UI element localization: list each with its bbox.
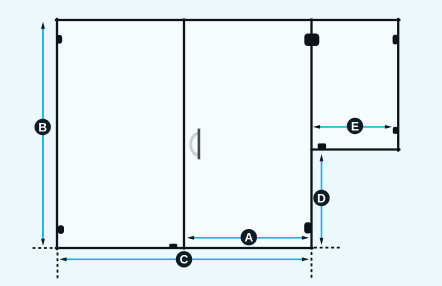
wire right edge xyxy=(397,19,399,151)
wire dashed ext bottom-left xyxy=(33,247,56,249)
arrowhead C right xyxy=(302,257,309,261)
wire dashed ext below-mid xyxy=(311,252,313,280)
node label C xyxy=(176,251,192,267)
hinge left top xyxy=(57,35,63,44)
arrowhead D bottom xyxy=(320,238,324,245)
svg-text:D: D xyxy=(317,191,326,205)
wire door divider xyxy=(183,20,185,249)
clamp right mid xyxy=(393,127,399,134)
svg-text:C: C xyxy=(180,253,189,267)
wire dashed ext bottom-right xyxy=(314,247,342,249)
wire top edge xyxy=(56,19,399,21)
wire return bottom edge xyxy=(312,148,400,150)
dim C shaft xyxy=(65,258,304,260)
svg-text:A: A xyxy=(244,231,253,245)
wire main bottom edge xyxy=(56,247,313,249)
svg-text:B: B xyxy=(38,120,47,134)
node label B xyxy=(35,119,51,135)
node label D xyxy=(313,190,329,206)
clamp main bottom xyxy=(169,244,177,249)
wire dashed ext below-left xyxy=(57,253,59,280)
arrowhead A left xyxy=(187,236,194,240)
dim D shaft xyxy=(321,160,323,240)
wire mid vertical xyxy=(310,20,312,249)
svg-text:E: E xyxy=(351,119,359,133)
arrowhead C left xyxy=(60,257,67,261)
arrowhead D top xyxy=(320,154,324,161)
clamp return bottom xyxy=(318,143,326,148)
door handle arc xyxy=(191,133,199,156)
hinge left bottom xyxy=(58,225,64,234)
arrowhead B bottom xyxy=(41,239,45,246)
dim B shaft xyxy=(42,27,44,240)
node label E xyxy=(347,118,363,134)
dim A shaft xyxy=(192,237,304,239)
node label A xyxy=(241,229,257,245)
clamp mid top xyxy=(304,34,319,47)
arrowhead E left xyxy=(313,125,320,129)
wire left edge xyxy=(56,19,58,249)
arrowhead B top xyxy=(41,22,45,29)
glass panel fill main xyxy=(57,20,312,248)
arrowhead E right xyxy=(385,125,392,129)
clamp mid bottom xyxy=(304,222,311,233)
arrowhead A right xyxy=(302,236,309,240)
clamp right top xyxy=(393,35,399,45)
door handle bar xyxy=(198,129,201,160)
glass panel fill right return xyxy=(312,20,399,150)
dim E shaft xyxy=(318,126,387,128)
